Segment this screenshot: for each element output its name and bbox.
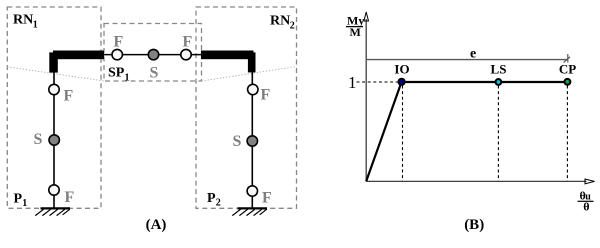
svg-text:2: 2: [216, 198, 221, 209]
svg-text:SP: SP: [108, 66, 125, 81]
svg-text:(A): (A): [146, 217, 167, 233]
hinge F right column upper (white circle): [248, 84, 258, 94]
hinge S right column (gray circle): [247, 136, 257, 146]
svg-text:S: S: [34, 131, 43, 148]
svg-text:F: F: [64, 88, 74, 105]
svg-text:IO: IO: [394, 62, 409, 77]
svg-text:P: P: [207, 191, 216, 206]
label RN1: [13, 13, 38, 31]
hinge F left column upper (white circle): [49, 84, 59, 94]
svg-text:1: 1: [348, 73, 357, 92]
dashed drop line CP: [566, 86, 568, 182]
label SP1: [108, 66, 130, 84]
svg-text:F: F: [262, 190, 272, 207]
dashed level line at 1: [357, 81, 399, 83]
label RN2: [270, 14, 295, 32]
svg-text:F: F: [261, 87, 271, 104]
point IO (navy dot): [398, 79, 404, 85]
hinge F beam right (white circle): [181, 49, 191, 59]
label P2: [207, 191, 221, 209]
dashed drop line LS: [497, 86, 499, 182]
column right line: [251, 72, 253, 208]
plateau line: [402, 81, 568, 83]
svg-text:P: P: [14, 192, 23, 207]
x axis: [366, 180, 586, 182]
svg-text:F: F: [183, 34, 193, 51]
svg-text:CP: CP: [559, 62, 576, 77]
region box SP1 (dashed): [104, 24, 202, 82]
elastic branch line: [366, 82, 401, 182]
svg-text:RN: RN: [13, 13, 33, 28]
svg-text:F: F: [114, 34, 124, 51]
svg-text:e: e: [470, 47, 476, 62]
hinge F right column lower (white circle): [247, 186, 257, 196]
x axis arrowhead: [585, 179, 595, 184]
y axis: [365, 19, 367, 182]
label P1: [14, 192, 28, 210]
hinge S beam middle (gray circle): [148, 49, 158, 59]
rigid beam segment left (thick): [53, 51, 104, 60]
beam center line: [104, 54, 201, 56]
svg-text:M: M: [350, 25, 361, 39]
y axis label My/M: [346, 14, 364, 39]
svg-text:LS: LS: [491, 62, 507, 77]
svg-text:RN: RN: [270, 14, 290, 29]
ground support P2: [232, 208, 267, 215]
rigid column head left (thick): [49, 52, 58, 72]
svg-text:θ: θ: [583, 200, 589, 214]
svg-text:1: 1: [125, 73, 130, 84]
svg-text:2: 2: [290, 21, 295, 32]
svg-text:(B): (B): [464, 217, 484, 233]
column left line: [53, 72, 55, 208]
rigid column head right (thick): [248, 52, 256, 72]
dimension line e: [367, 54, 570, 63]
hinge F beam left (white circle): [112, 49, 122, 59]
hinge S left column (gray circle): [49, 135, 59, 145]
region box RN1 (dashed): [7, 7, 101, 208]
y axis arrowhead: [364, 12, 369, 21]
svg-text:1: 1: [22, 198, 27, 209]
dotted boundary line right: [202, 67, 297, 82]
hinge F left column lower (white circle): [49, 185, 59, 195]
svg-text:S: S: [150, 65, 159, 82]
point LS (cyan dot): [496, 79, 502, 85]
svg-text:S: S: [233, 133, 242, 150]
rigid beam segment right (thick): [201, 51, 254, 60]
dotted boundary line left: [7, 67, 104, 81]
region box RN2 (dashed): [196, 7, 297, 208]
x axis label theta-u/theta: [578, 189, 594, 214]
svg-text:1: 1: [33, 20, 38, 31]
ground support P1: [35, 208, 70, 215]
point CP (green dot): [565, 79, 571, 85]
svg-text:F: F: [65, 189, 75, 206]
dashed drop line IO: [402, 86, 404, 182]
